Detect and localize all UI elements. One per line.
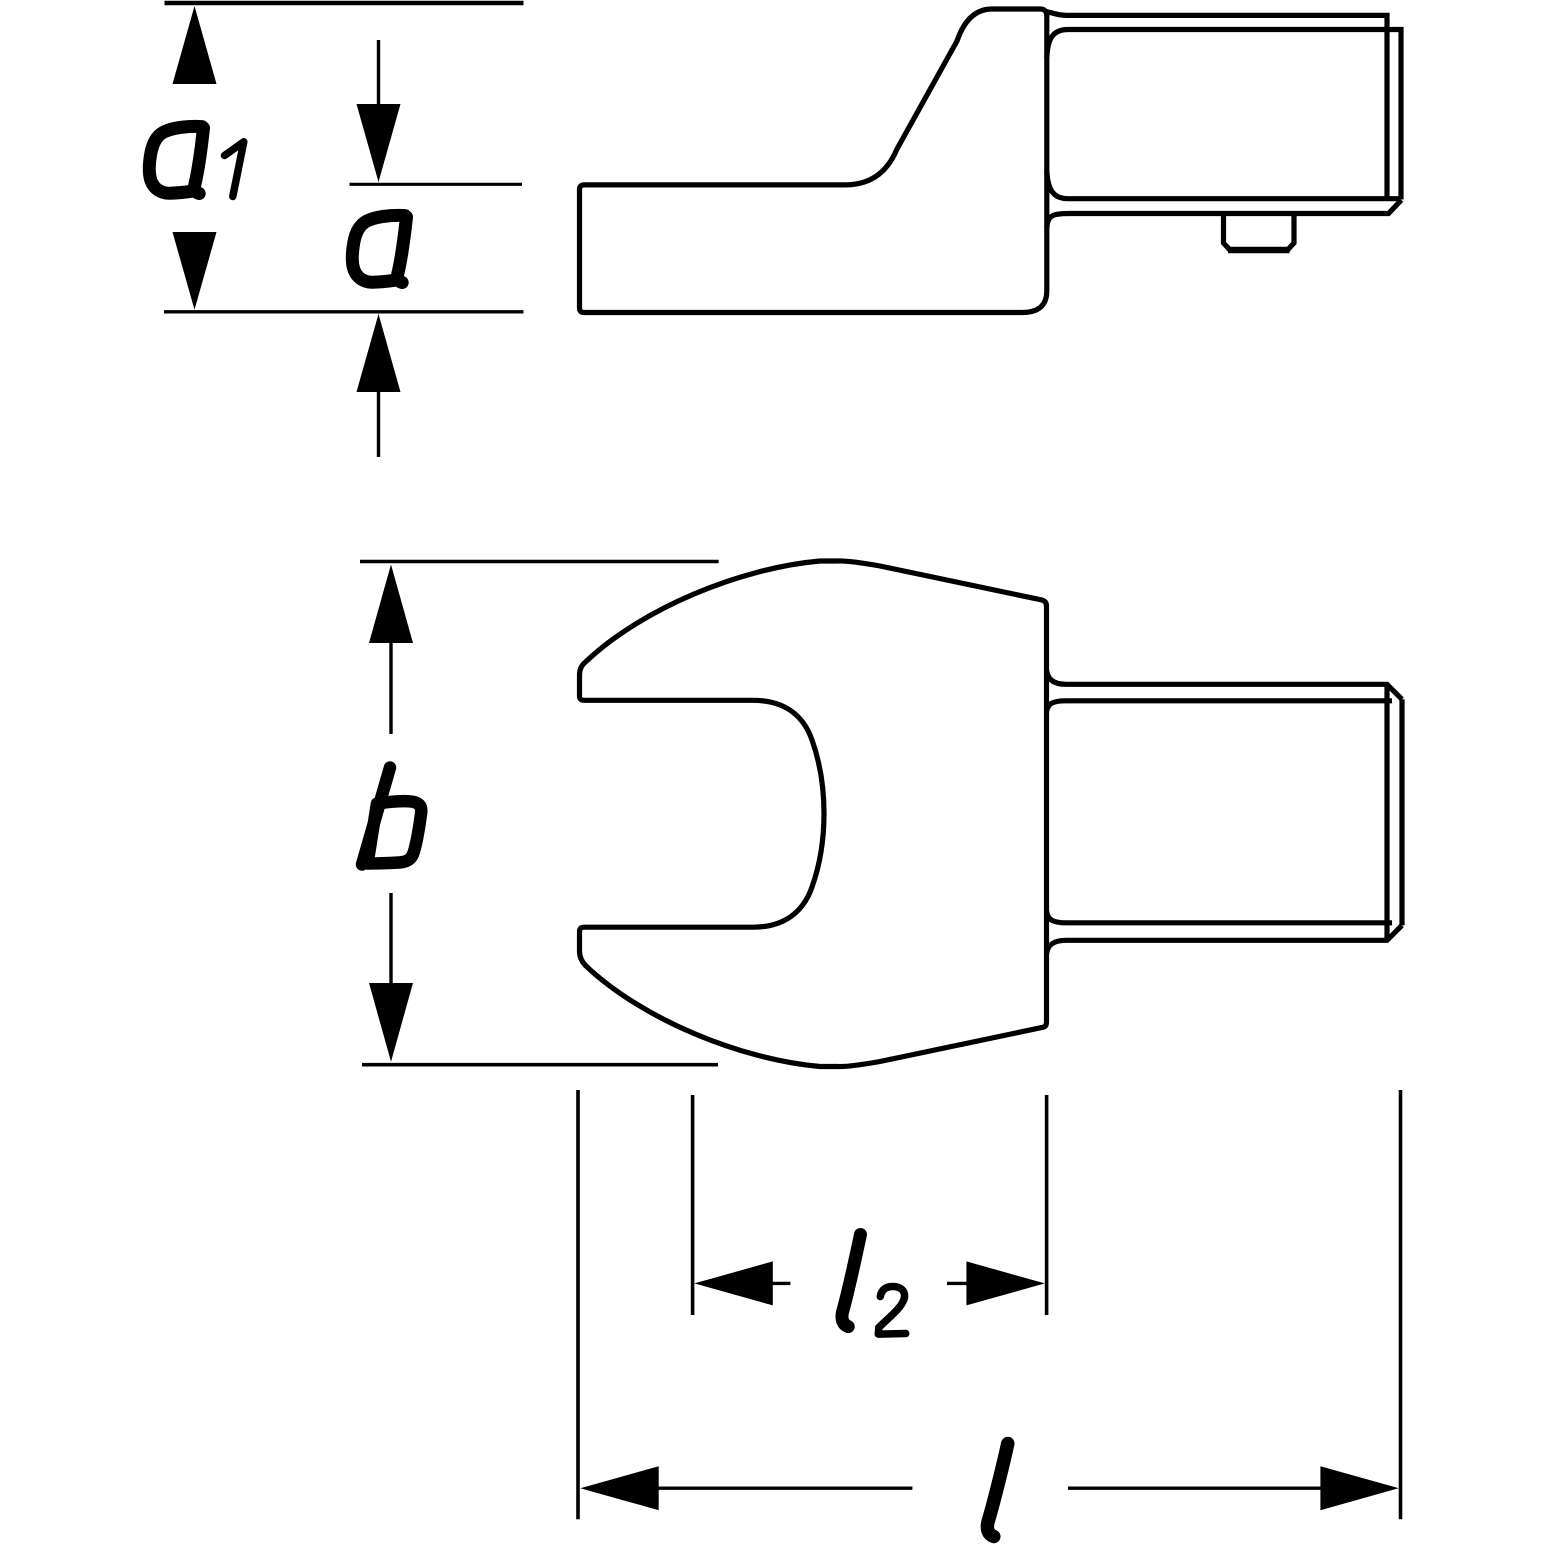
detent pin bottom edge	[1228, 247, 1290, 254]
dimension a: bottom line (shared with a1)	[164, 310, 524, 313]
dimension a1: top extension line	[165, 1, 524, 6]
label a	[352, 215, 406, 282]
dimension b: bottom extension line	[362, 1063, 718, 1067]
extension line for l2 right	[1045, 1095, 1049, 1315]
dimension l: left stem	[656, 1486, 912, 1489]
lower shank: outer bottom line with end chamfer	[1047, 925, 1403, 954]
lower view: wrench head outline with open jaw	[580, 561, 1047, 1067]
dimension l2: right arrowhead (pointing right)	[966, 1261, 1044, 1305]
lower shank: chamfer inner vertical	[1384, 684, 1389, 940]
dimension b: up arrowhead	[369, 565, 413, 644]
drive spigot side view: end face bottom line	[1047, 170, 1399, 199]
wrench side view: head outline	[580, 9, 1047, 313]
dimension a: lower arrowhead (pointing up)	[357, 314, 401, 392]
dimension l: left arrowhead (pointing left)	[580, 1466, 658, 1510]
lower shank: main top line	[1047, 701, 1393, 712]
label l2: subscript 2	[878, 1286, 905, 1334]
drive spigot side view: outer top line	[1044, 11, 1387, 199]
drive spigot side view: end face rect	[1047, 30, 1401, 200]
dimension a: top line	[350, 183, 523, 186]
dimension a: upper arrowhead (pointing down)	[357, 104, 401, 182]
dimension b: top extension line	[360, 560, 719, 564]
dimension b: lower stem	[389, 893, 392, 988]
extension line for l right	[1399, 1090, 1403, 1519]
dimension l2: left arrowhead (pointing left)	[694, 1261, 772, 1305]
lower shank: end vertical	[1399, 699, 1404, 925]
dimension b: upper stem	[389, 639, 392, 734]
label a1: letter a	[149, 126, 203, 193]
lower shank: main bottom line	[1047, 911, 1393, 923]
drive spigot side view: outer bottom line with chamfer	[1047, 200, 1402, 228]
label l	[987, 1444, 1007, 1537]
dimension a1: down arrowhead	[173, 232, 217, 310]
dimension a1: up arrowhead	[173, 6, 217, 84]
extension line for l at jaw tip	[576, 1090, 580, 1519]
dimension a: lower arrow stem	[377, 388, 380, 457]
dimension b: down arrowhead	[369, 983, 413, 1062]
label a1: subscript 1	[225, 142, 244, 197]
dimension l2: right stem	[947, 1282, 970, 1285]
lower shank: outer top line with end chamfer	[1047, 670, 1403, 699]
detent pin	[1224, 216, 1295, 250]
dimension l: right arrowhead (pointing right)	[1320, 1466, 1398, 1510]
dimension a: upper arrow stem	[377, 40, 380, 108]
label l2: letter l	[842, 1235, 861, 1327]
dimension l: right stem	[1068, 1486, 1329, 1489]
label b	[362, 768, 421, 865]
extension line for l2 left	[691, 1095, 695, 1315]
dimension l2: left stem	[770, 1282, 790, 1285]
